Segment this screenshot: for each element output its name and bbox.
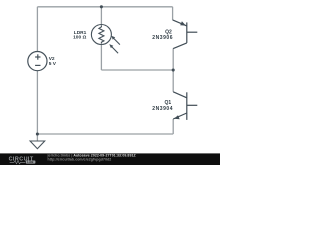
- svg-text:jericho.timbs | Autosave 2022-: jericho.timbs | Autosave 2022-09-27T01:3…: [47, 153, 137, 157]
- node junction mid (collectors): [172, 68, 175, 71]
- wire Q2 collector to junction: [172, 48, 174, 70]
- wire top rail: [37, 6, 172, 8]
- wire left rail lower: [36, 71, 38, 134]
- base bar: [186, 92, 188, 120]
- svg-text:2N3906: 2N3906: [152, 35, 173, 41]
- svg-text:http://circuitlab.com/c/e2gfvp: http://circuitlab.com/c/e2gfvpgd7/ld2: [48, 158, 112, 162]
- emitter diagonal: [173, 113, 187, 119]
- wire Q1 emitter drop: [172, 119, 174, 134]
- svg-text:Q1: Q1: [165, 100, 172, 106]
- ground: [30, 141, 45, 149]
- wire left rail upper: [36, 7, 38, 52]
- base stub: [187, 104, 198, 106]
- voltage source V2: [28, 52, 47, 71]
- transistor Q1 (NPN 2N3904): [173, 92, 197, 120]
- base stub: [187, 31, 198, 33]
- wire Q2 emitter drop: [172, 7, 174, 20]
- base bar: [186, 22, 188, 43]
- svg-text:2N3904: 2N3904: [152, 106, 173, 112]
- wire ground stem: [36, 134, 38, 141]
- node junction top (LDR tap): [100, 5, 103, 8]
- collector diagonal: [173, 43, 187, 49]
- svg-text:100 Ω: 100 Ω: [73, 35, 86, 41]
- wire junction to Q1 collector: [172, 70, 174, 92]
- wire bottom rail: [37, 133, 173, 135]
- node junction ground: [36, 132, 39, 135]
- svg-text:5 V: 5 V: [49, 61, 57, 67]
- Q1 emitter arrowhead (NPN, points out): [174, 115, 180, 119]
- wire LDR top stem: [100, 7, 102, 25]
- emitter diagonal: [173, 20, 187, 26]
- light arrow 2: [111, 46, 118, 54]
- light arrow 1: [113, 37, 120, 44]
- wire mid horizontal: [101, 69, 173, 71]
- Q2 emitter arrowhead (PNP, points to bar): [180, 21, 186, 25]
- wire LDR bottom stem: [100, 44, 102, 70]
- footer watermark bar: [0, 153, 220, 165]
- svg-text:LAB: LAB: [27, 160, 34, 164]
- collector diagonal: [173, 92, 187, 98]
- light arrowhead 1: [111, 36, 115, 40]
- transistor Q2 (PNP 2N3906): [173, 20, 198, 49]
- photoresistor LDR1: [91, 25, 120, 54]
- light arrowhead 2: [109, 44, 113, 48]
